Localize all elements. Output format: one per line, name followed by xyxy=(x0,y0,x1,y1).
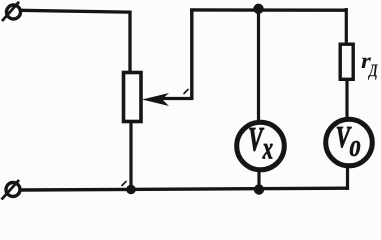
label Vx xyxy=(250,128,265,151)
wire wiper vertical xyxy=(190,9,193,101)
wire right vertical to resistor xyxy=(345,8,348,44)
potentiometer wiper arrow xyxy=(142,93,169,106)
wire left vertical xyxy=(128,11,131,75)
wire top middle horizontal xyxy=(190,8,348,12)
junction dot bottom potentiometer xyxy=(126,185,136,195)
pen tick near potentiometer bottom junction xyxy=(122,181,127,186)
wire bottom horizontal xyxy=(20,188,348,190)
terminal bottom-left xyxy=(2,180,21,200)
junction node top (dot) xyxy=(253,4,263,14)
pen tick near wiper corner xyxy=(184,89,189,94)
wire V0 bottom xyxy=(346,165,349,191)
resistor rD body xyxy=(340,44,353,79)
label rD xyxy=(362,58,372,69)
label V0 xyxy=(337,127,352,148)
wire potentiometer bottom vertical xyxy=(129,120,132,189)
terminal top-left xyxy=(2,2,21,21)
wire top-left horizontal xyxy=(20,10,131,12)
wire Vx drop from junction xyxy=(257,8,260,122)
wire wiper horizontal xyxy=(160,97,193,100)
wire resistor to V0 xyxy=(345,80,348,120)
wire Vx bottom xyxy=(257,168,260,190)
potentiometer R body xyxy=(124,73,142,122)
voltmeter Vx body xyxy=(237,122,285,170)
junction dot bottom Vx xyxy=(254,184,264,194)
voltmeter V0 body xyxy=(326,119,373,166)
